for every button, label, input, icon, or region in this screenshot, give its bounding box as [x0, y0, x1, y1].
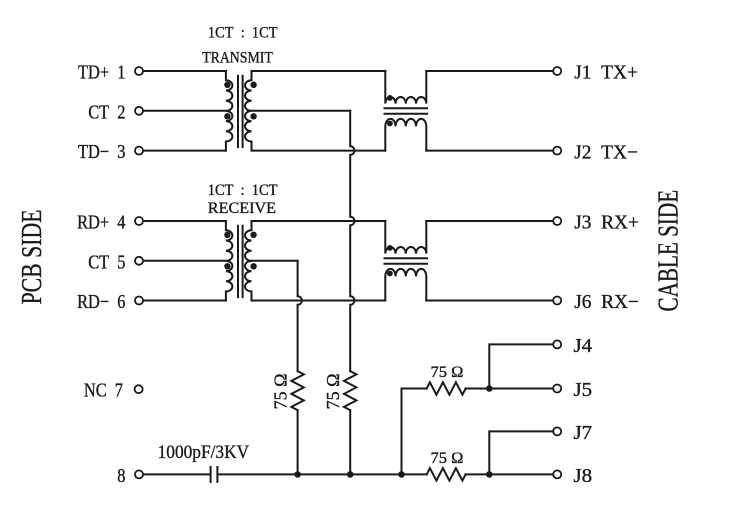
wire T2 secondary top to choke L2 (hop at x=350.2)	[252, 220, 386, 222]
T1 polarity dot secondary lower	[250, 113, 256, 119]
svg-text:J8: J8	[574, 466, 593, 487]
svg-text:NC 7: NC 7	[84, 379, 123, 401]
terminal J6	[553, 297, 561, 305]
terminal J4	[553, 340, 561, 348]
transformer T1 secondary winding	[245, 71, 251, 151]
svg-text:TRANSMIT: TRANSMIT	[202, 50, 273, 67]
wire resistor R4 to J8	[466, 473, 553, 475]
T2 polarity dot primary top	[224, 232, 230, 238]
svg-text:J5: J5	[574, 379, 593, 400]
svg-text:J7: J7	[574, 423, 593, 444]
vertical wire J5 row up to J4 row	[489, 344, 553, 388]
junction node R3 branch/bottom bus	[398, 471, 405, 478]
svg-text:CABLE SIDE: CABLE SIDE	[652, 190, 684, 312]
vertical wire node A with hops at y=150.6,221,300.5 down to resistor R2	[350, 111, 354, 371]
resistor R4 zigzag 75ohm horizontal bottom	[427, 468, 466, 480]
svg-text:RD− 6: RD− 6	[77, 291, 125, 313]
pin 1 terminal	[135, 67, 143, 75]
junction node J4/J5 branch	[486, 385, 493, 392]
resistor R2 zigzag 75ohm	[344, 371, 356, 410]
wire choke L1 top to J1	[426, 70, 553, 72]
svg-text:75 Ω: 75 Ω	[431, 363, 464, 381]
wire pin3 to T1 primary bottom	[143, 150, 226, 152]
wire pin6 to T2 primary bottom	[143, 300, 226, 302]
bottom bus wire capacitor to J8	[217, 473, 426, 475]
junction node R1/bottom bus	[294, 471, 301, 478]
svg-text:RECEIVE: RECEIVE	[208, 200, 276, 217]
wire pin2 to T1 primary center tap	[143, 110, 226, 112]
choke L2 bottom winding	[385, 269, 426, 301]
terminal J7	[553, 427, 561, 435]
vertical wire bottom bus to row J5	[402, 389, 427, 475]
svg-text:1CT : 1CT: 1CT : 1CT	[208, 181, 278, 199]
L1 polarity dot top winding	[387, 95, 393, 101]
svg-text:J1 TX+: J1 TX+	[574, 61, 638, 83]
resistor R3 zigzag 75ohm horizontal upper	[427, 382, 466, 394]
L2 polarity dot bottom winding	[387, 271, 393, 277]
choke L1 core	[385, 107, 428, 109]
svg-text:1000pF/3KV: 1000pF/3KV	[158, 441, 250, 462]
terminal J8	[553, 470, 561, 478]
T1 polarity dot secondary top	[250, 82, 256, 88]
wire pin5 to T2 primary center tap	[143, 260, 226, 262]
junction node J7/J8 branch	[486, 471, 493, 478]
wire pin4 to transformer T2 primary top	[143, 220, 226, 222]
pin 4 terminal	[135, 217, 143, 225]
choke L2 core	[385, 257, 428, 259]
pin 6 terminal	[135, 297, 143, 305]
wire pin1 to transformer T1 primary top	[143, 70, 226, 72]
wire choke L2 bottom to J6	[426, 300, 553, 302]
terminal J2	[553, 147, 561, 155]
wire choke L2 top to J3	[426, 220, 553, 222]
choke L1 top winding	[385, 71, 426, 104]
terminal J1	[553, 67, 561, 75]
transformer T2 primary winding	[226, 221, 233, 301]
svg-text:75 Ω: 75 Ω	[271, 373, 291, 409]
svg-text:J2 TX−: J2 TX−	[574, 141, 638, 163]
wire T2 secondary CT to vertical node B	[252, 260, 298, 262]
junction node R2/bottom bus	[347, 471, 354, 478]
svg-text:TD+ 1: TD+ 1	[78, 61, 125, 83]
wire resistor R1 to bottom bus	[297, 410, 299, 474]
svg-text:PCB SIDE: PCB SIDE	[15, 210, 48, 305]
svg-text:J4: J4	[574, 336, 593, 357]
T2 polarity dot primary lower	[224, 263, 230, 269]
pin 3 terminal	[135, 147, 143, 155]
svg-text:75 Ω: 75 Ω	[431, 449, 464, 467]
pin 7 NC terminal	[135, 385, 143, 393]
svg-text:J3 RX+: J3 RX+	[574, 211, 639, 233]
wire choke L1 bottom to J2	[426, 150, 553, 152]
wire T1 secondary top to choke L1	[252, 70, 386, 72]
pin 2 terminal	[135, 107, 143, 115]
vertical wire node B with hop at y=300.5 down to resistor R1	[298, 261, 302, 371]
wire T1 secondary CT to vertical node A	[252, 110, 351, 112]
choke L2 top winding	[385, 221, 426, 254]
wire T2 secondary bottom to choke L2 (hops at 297.6, 350.2)	[252, 300, 386, 302]
svg-text:J6 RX−: J6 RX−	[574, 291, 639, 313]
wire T1 secondary bottom to choke L1 (hop at x=350.2)	[252, 150, 386, 152]
pin 5 terminal	[135, 257, 143, 265]
transformer T1 core	[237, 76, 239, 147]
svg-text:TD− 3: TD− 3	[78, 141, 125, 163]
svg-text:CT 5: CT 5	[88, 251, 125, 273]
vertical wire J8 row up to J7 row	[489, 431, 553, 474]
choke L1 bottom winding	[385, 119, 426, 151]
svg-text:1CT : 1CT: 1CT : 1CT	[208, 24, 278, 42]
resistor R1 zigzag 75ohm	[291, 371, 303, 410]
transformer T2 secondary winding	[245, 221, 252, 301]
L2 polarity dot top winding	[387, 245, 393, 251]
T2 polarity dot secondary top	[250, 232, 256, 238]
svg-text:CT 2: CT 2	[88, 101, 125, 123]
terminal J3	[553, 217, 561, 225]
svg-text:8: 8	[117, 464, 125, 486]
svg-text:75 Ω: 75 Ω	[323, 373, 343, 409]
T2 polarity dot secondary lower	[250, 263, 256, 269]
T1 polarity dot primary top	[224, 82, 230, 88]
wire resistor R3 to J5	[466, 388, 553, 390]
terminal J5	[553, 385, 561, 393]
transformer T1 primary winding	[226, 71, 233, 151]
capacitor C1 plates	[210, 467, 212, 482]
wire pin8 to capacitor C1	[143, 473, 211, 475]
T1 polarity dot primary lower	[224, 113, 230, 119]
L1 polarity dot bottom winding	[387, 121, 393, 127]
transformer T2 core	[237, 226, 239, 297]
svg-text:RD+ 4: RD+ 4	[77, 211, 125, 233]
wire resistor R2 to bottom bus	[349, 410, 351, 474]
pin 8 terminal	[135, 470, 143, 478]
